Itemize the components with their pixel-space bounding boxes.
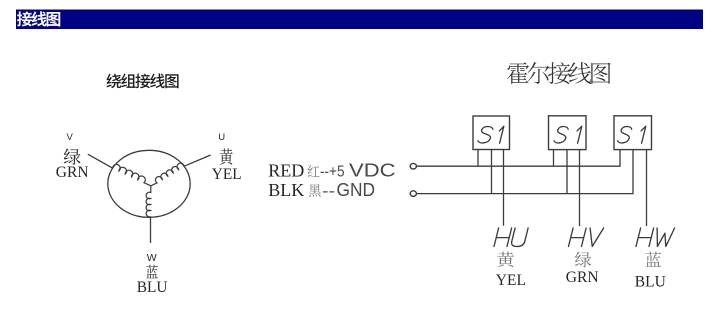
label 黄 YEL	[497, 252, 514, 268]
label 蓝 BLU	[146, 265, 158, 279]
GND bus wire	[417, 150, 633, 194]
right title 霍尔接线图	[507, 62, 611, 84]
hall sensor S1 (V) box	[549, 116, 587, 150]
label HV	[569, 228, 587, 247]
wire V lead	[88, 154, 113, 168]
terminal +5VDC	[410, 163, 416, 169]
label HW	[636, 228, 654, 247]
hall sensor S1 (W) box	[614, 116, 652, 150]
label HU	[494, 228, 512, 247]
svg-text:YEL: YEL	[212, 166, 242, 183]
svg-text:GRN: GRN	[56, 164, 89, 181]
svg-text:GRN: GRN	[566, 269, 599, 286]
banner text 接线图	[17, 11, 60, 26]
motor stator circle	[108, 150, 190, 217]
title banner	[16, 10, 703, 30]
label 绿 GRN	[575, 252, 591, 268]
svg-text:BLU: BLU	[137, 279, 168, 296]
svg-text:--+5: --+5	[320, 164, 345, 181]
label 绿 GRN	[64, 149, 81, 165]
svg-text:BLK: BLK	[268, 180, 304, 200]
svg-text:YEL: YEL	[496, 272, 526, 289]
S1-U pin wires	[478, 150, 504, 226]
S1-W pin wires	[646, 150, 648, 226]
+5V bus wire	[417, 150, 620, 167]
S1-V pin wires	[554, 150, 580, 226]
label 蓝 BLU	[645, 252, 661, 267]
svg-text:VDC: VDC	[349, 160, 396, 181]
winding coil W (down branch)	[146, 186, 151, 217]
svg-text:V: V	[67, 132, 74, 143]
svg-text:U: U	[218, 132, 225, 143]
svg-text:RED: RED	[268, 161, 304, 181]
wire U lead	[184, 155, 211, 166]
label 黄 YEL	[220, 148, 233, 164]
terminal GND	[410, 191, 416, 197]
left title 绕组接线图	[106, 74, 178, 89]
winding coil U (upper-right branch)	[151, 163, 184, 186]
hall sensor S1 (U) box	[473, 116, 510, 150]
winding coil V (upper-left branch)	[113, 164, 151, 185]
svg-text:--: --	[322, 183, 335, 200]
svg-text:W: W	[147, 252, 157, 264]
svg-text:GND: GND	[337, 180, 376, 200]
svg-text:BLU: BLU	[635, 274, 666, 291]
wire W lead	[150, 217, 152, 243]
